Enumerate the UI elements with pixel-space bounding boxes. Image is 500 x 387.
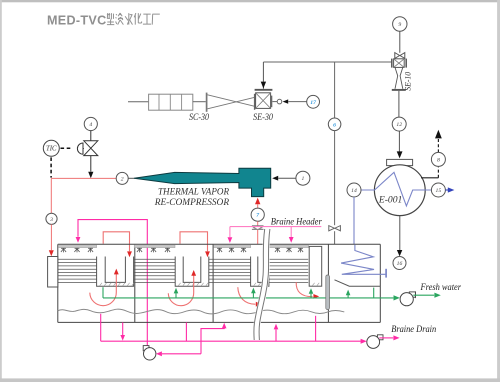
svg-text:14: 14	[351, 188, 357, 194]
svg-text:SC-30: SC-30	[189, 112, 209, 122]
svg-text:12: 12	[396, 122, 402, 128]
svg-text:3: 3	[49, 217, 53, 223]
svg-text:9: 9	[398, 22, 401, 28]
svg-text:TIC: TIC	[46, 146, 57, 153]
svg-text:Braine Drain: Braine Drain	[391, 324, 436, 334]
svg-text:Braine Header: Braine Header	[271, 217, 322, 227]
svg-text:15: 15	[436, 188, 442, 194]
svg-text:SE-30: SE-30	[253, 112, 273, 122]
svg-text:SE-10: SE-10	[403, 71, 413, 91]
svg-text:6: 6	[333, 122, 336, 128]
svg-text:1: 1	[301, 176, 304, 182]
svg-text:MED-TVC: MED-TVC	[47, 13, 106, 27]
svg-text:16: 16	[397, 261, 403, 267]
svg-text:4: 4	[89, 122, 92, 128]
svg-text:2: 2	[121, 176, 124, 182]
svg-text:E-001: E-001	[378, 196, 403, 206]
svg-text:RE-COMPRESSOR: RE-COMPRESSOR	[154, 197, 229, 208]
svg-text:8: 8	[437, 157, 440, 163]
svg-text:Fresh water: Fresh water	[420, 282, 462, 292]
